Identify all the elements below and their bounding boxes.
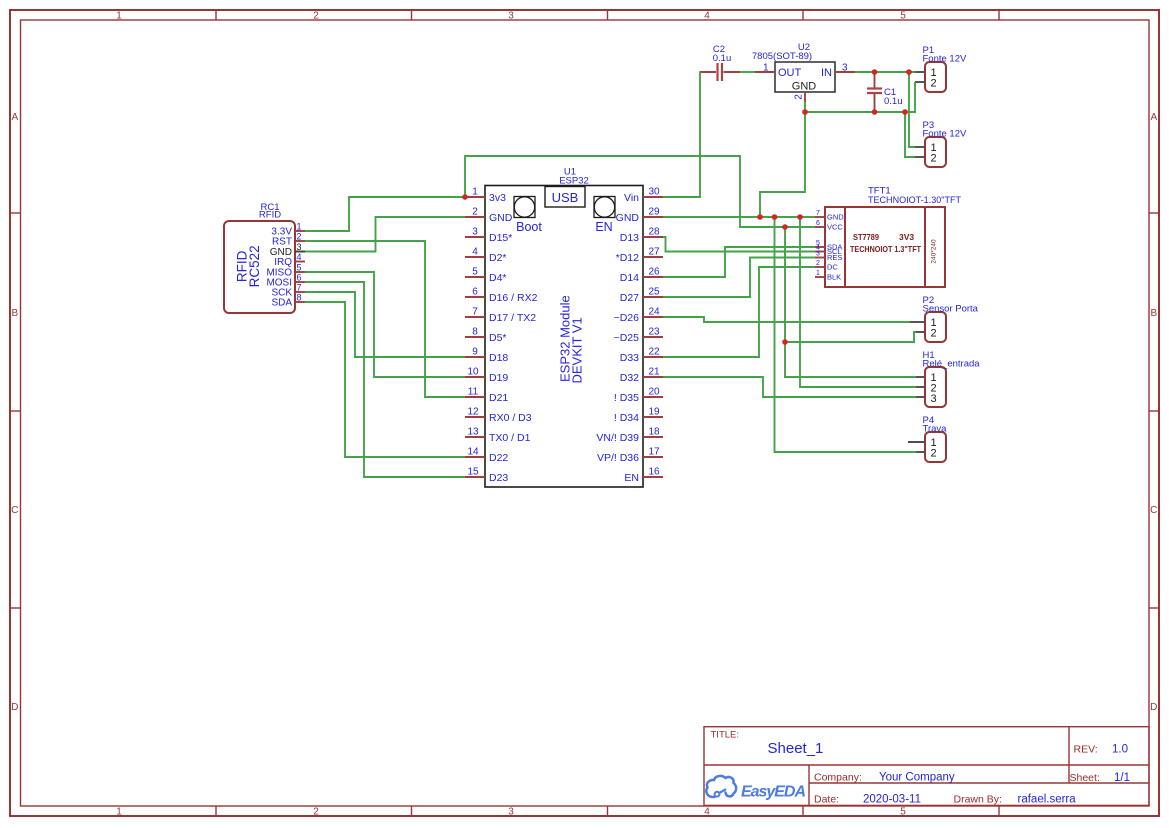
svg-text:13: 13 [467, 427, 479, 438]
svg-text:18: 18 [648, 427, 660, 438]
EasyEDA logo [706, 776, 806, 801]
svg-text:3: 3 [508, 807, 514, 818]
P1 pin 2 stub [915, 81, 925, 83]
wire GND branch to H1 pin2 [800, 217, 916, 387]
svg-text:! D34: ! D34 [614, 412, 639, 424]
TFT1 inner text 3V3 [899, 232, 914, 242]
title block date value 2020-03-11 [863, 794, 921, 806]
P1 reference label [923, 45, 935, 56]
border column numbers bottom [116, 807, 906, 818]
svg-text:IRQ: IRQ [274, 257, 292, 268]
svg-text:D17 / TX2: D17 / TX2 [489, 312, 536, 324]
P3 value label Fonte 12V [923, 129, 967, 140]
H1 reference label [923, 350, 935, 361]
TFT1 inner text TECHNOIOT 1.3"TFT [850, 244, 922, 254]
svg-text:Date:: Date: [814, 794, 839, 806]
U1 right pin names [596, 192, 639, 484]
junction dot C1 bottom on GND net [872, 109, 878, 115]
svg-text:Boot: Boot [516, 220, 542, 234]
svg-text:IN: IN [821, 67, 832, 79]
wire U1 GND to TFT1 GND [663, 216, 815, 218]
EN button label [595, 220, 612, 234]
wire RC1 SDA to U1 D22 [305, 302, 465, 457]
RC1 value label RFID [259, 210, 281, 221]
title block REV label [1074, 744, 1098, 756]
U1 right pin stubs 30-16 [643, 197, 663, 477]
RC1 pin names [266, 227, 292, 309]
svg-text:*D12: *D12 [616, 252, 640, 264]
svg-text:Fonte 12V: Fonte 12V [923, 129, 967, 140]
connector P1 body [925, 62, 946, 92]
U1 reference label [564, 167, 576, 178]
svg-text:D27: D27 [620, 292, 639, 304]
svg-text:RST: RST [272, 237, 292, 248]
U1 left pin numbers 1-15 [467, 187, 479, 478]
svg-text:D14: D14 [620, 272, 639, 284]
wire GND branch to P3 pin2 [905, 112, 915, 157]
svg-text:VN/! D39: VN/! D39 [596, 432, 639, 444]
RFID module RC1 body [224, 221, 295, 313]
svg-text:RES: RES [827, 253, 842, 262]
svg-text:C: C [11, 505, 18, 516]
svg-text:2: 2 [297, 232, 302, 242]
wire GND bus to P1 pin2 [805, 82, 915, 112]
svg-text:~D26: ~D26 [614, 312, 640, 324]
svg-text:2: 2 [931, 153, 937, 165]
svg-text:TX0 / D1: TX0 / D1 [489, 432, 531, 444]
svg-text:29: 29 [648, 207, 660, 218]
svg-text:5: 5 [900, 807, 906, 818]
wire U1 Vin to C2 [663, 72, 700, 197]
svg-text:5: 5 [297, 263, 302, 273]
connector H1 body [925, 367, 946, 407]
U1 value label ESP32 [559, 176, 589, 187]
border ruler ticks bottom [216, 806, 999, 816]
title block Sheet label [1070, 772, 1100, 784]
svg-text:! D35: ! D35 [614, 392, 639, 404]
svg-text:EN: EN [624, 472, 639, 484]
svg-text:4: 4 [704, 11, 710, 22]
capacitor C1 [867, 72, 882, 112]
svg-text:C: C [1150, 505, 1157, 516]
svg-text:D19: D19 [489, 372, 508, 384]
svg-text:7: 7 [297, 283, 302, 293]
svg-text:17: 17 [648, 447, 660, 458]
title block sheet value 1/1 [1114, 772, 1130, 784]
svg-text:Trava: Trava [923, 424, 948, 435]
junction dot U2 GND pin [802, 109, 808, 115]
svg-text:D5*: D5* [489, 332, 507, 344]
svg-text:D: D [1150, 702, 1157, 713]
svg-text:DEVKIT V1: DEVKIT V1 [570, 317, 585, 383]
wire U1 D32 to H1 pin3 [663, 377, 916, 397]
H1 value label Rele_entrada [923, 359, 981, 370]
svg-text:16: 16 [648, 467, 660, 478]
U2 pin 2 GND stub [804, 92, 806, 102]
svg-text:Sheet:: Sheet: [1070, 772, 1100, 784]
P4 pin numbers [931, 437, 937, 460]
wire RC1 RST to U1 D21 [305, 241, 465, 397]
svg-text:D15*: D15* [489, 232, 512, 244]
svg-text:D23: D23 [489, 472, 508, 484]
svg-text:0.1u: 0.1u [713, 53, 732, 64]
svg-text:26: 26 [648, 267, 660, 278]
svg-text:2: 2 [816, 260, 820, 267]
RC1 reference label [260, 202, 279, 213]
U2 reference label [798, 42, 810, 53]
svg-text:Vin: Vin [624, 192, 639, 204]
wire U1 D14 to TFT1 SDA [663, 247, 815, 277]
EN button on U1 [594, 197, 615, 218]
svg-text:2020-03-11: 2020-03-11 [863, 794, 921, 806]
USB connector box on U1 [545, 187, 585, 208]
junction dot GND rail riser [757, 214, 763, 220]
wire RC1 MOSI to U1 D23 [305, 282, 465, 477]
connector P4 body [925, 432, 946, 462]
TFT1 inner text ST7789 [853, 232, 879, 242]
H1 pin 1 stub [916, 376, 925, 378]
junction dot U1 pin1 3v3 [462, 194, 468, 200]
svg-text:SDA: SDA [271, 298, 292, 309]
U2 value label 7805(SOT-89) [752, 51, 812, 62]
capacitor C2 [700, 63, 741, 81]
svg-text:2: 2 [472, 207, 478, 218]
svg-text:4: 4 [297, 252, 302, 262]
border row letters right [1150, 112, 1157, 713]
svg-text:28: 28 [648, 227, 660, 238]
P2 pin numbers [931, 317, 937, 340]
U2 GND pin name [792, 81, 817, 93]
svg-text:Sensor Porta: Sensor Porta [923, 304, 979, 315]
border ruler ticks top [216, 10, 999, 20]
svg-text:1.0: 1.0 [1112, 744, 1128, 756]
P1 pin 1 stub [915, 71, 925, 73]
svg-text:D18: D18 [489, 352, 508, 364]
title block outline [704, 727, 1149, 806]
svg-text:D2*: D2* [489, 252, 507, 264]
svg-text:REV:: REV: [1074, 744, 1098, 756]
svg-text:9: 9 [472, 347, 478, 358]
RC1 pin numbers 1-8 [297, 222, 302, 303]
svg-text:0.1u: 0.1u [884, 96, 903, 107]
Boot button label [516, 220, 542, 234]
U1 rotated name ESP32 Module [558, 295, 573, 382]
svg-text:D4*: D4* [489, 272, 507, 284]
svg-text:1/1: 1/1 [1114, 772, 1130, 784]
border row letters left [11, 112, 18, 713]
svg-text:3: 3 [472, 227, 478, 238]
svg-text:rafael.serra: rafael.serra [1018, 794, 1077, 806]
svg-text:D16 / RX2: D16 / RX2 [489, 292, 538, 304]
svg-text:21: 21 [648, 367, 660, 378]
junction dot GND rail to P4 [772, 214, 778, 220]
svg-text:22: 22 [648, 347, 660, 358]
svg-text:DC: DC [827, 263, 838, 272]
P2 pin 2 stub [916, 331, 925, 333]
junction dot P3 pin2 branch on GND net [902, 109, 908, 115]
U2 pin 1 number [763, 63, 769, 74]
wire U2 IN to P1 pin1 [855, 71, 915, 73]
svg-text:25: 25 [648, 287, 660, 298]
svg-text:RFID: RFID [235, 250, 250, 282]
RC1 rotated name RC522 [247, 245, 262, 287]
svg-text:USB: USB [552, 190, 579, 205]
junction dot GND rail to H1 [797, 214, 803, 220]
svg-text:15: 15 [467, 467, 479, 478]
border ruler ticks right [1149, 213, 1159, 608]
svg-text:2: 2 [313, 11, 319, 22]
connector P3 body [925, 137, 946, 167]
P1 value label Fonte 12V [923, 54, 967, 65]
svg-text:1: 1 [297, 222, 302, 232]
svg-text:6: 6 [816, 220, 820, 227]
svg-text:3: 3 [297, 242, 302, 252]
svg-text:14: 14 [467, 447, 479, 458]
H1 pin numbers [931, 372, 937, 405]
svg-text:4: 4 [472, 247, 478, 258]
junction dot P3 branch on IN net [906, 69, 912, 75]
U2 OUT pin name [778, 67, 802, 79]
title block company value Your Company [879, 772, 955, 784]
svg-text:1: 1 [116, 807, 122, 818]
svg-text:GND: GND [616, 212, 640, 224]
wire U1 D33 to TFT1 DC [663, 267, 815, 357]
svg-text:GND: GND [827, 213, 844, 222]
junction dot VCC rail branch [782, 224, 788, 230]
svg-text:EN: EN [595, 220, 612, 234]
border ruler ticks left [10, 213, 21, 608]
title block Drawn By label [954, 794, 1002, 806]
svg-text:3: 3 [842, 63, 848, 74]
svg-text:1: 1 [472, 187, 478, 198]
svg-text:TECHNOIOT 1.3"TFT: TECHNOIOT 1.3"TFT [850, 244, 922, 254]
svg-text:Relé_entrada: Relé_entrada [923, 359, 981, 370]
wire U2 GND pin down [804, 102, 806, 112]
svg-text:2: 2 [794, 94, 805, 100]
wire C2 to U2 OUT [740, 71, 755, 73]
svg-text:19: 19 [648, 407, 660, 418]
wire U1 D27 to TFT1 RES [663, 258, 815, 298]
svg-text:12: 12 [467, 407, 479, 418]
svg-text:OUT: OUT [778, 67, 802, 79]
svg-text:1: 1 [816, 270, 820, 277]
svg-text:6: 6 [472, 287, 478, 298]
svg-text:2: 2 [931, 328, 937, 340]
P3 reference label [923, 120, 935, 131]
svg-text:7: 7 [472, 307, 478, 318]
svg-text:2: 2 [313, 807, 319, 818]
svg-text:8: 8 [472, 327, 478, 338]
wire RC1 GND to U1 GND [305, 217, 465, 252]
svg-text:23: 23 [648, 327, 660, 338]
U1 left pin names [489, 192, 538, 484]
svg-text:Drawn By:: Drawn By: [954, 794, 1002, 806]
svg-text:A: A [1150, 112, 1157, 123]
P3 pin 2 stub [915, 156, 925, 158]
P1 pin numbers [931, 67, 937, 90]
wire RC1 SCK to U1 D18 [305, 292, 465, 357]
TFT1 reference label [868, 186, 891, 197]
svg-text:B: B [1150, 308, 1157, 319]
svg-text:Fonte 12V: Fonte 12V [923, 54, 967, 65]
P2 value label Sensor Porta [923, 304, 979, 315]
svg-text:7: 7 [816, 210, 820, 217]
svg-text:4: 4 [704, 807, 710, 818]
svg-text:5: 5 [472, 267, 478, 278]
title block rev value 1.0 [1112, 744, 1128, 756]
P2 reference label [923, 295, 935, 306]
H1 pin 2 stub [916, 386, 925, 388]
TFT1 pin stubs [815, 217, 825, 277]
connector P2 body [925, 312, 946, 342]
svg-text:D22: D22 [489, 452, 508, 464]
U2 IN pin name [821, 67, 832, 79]
svg-text:GND: GND [792, 81, 817, 93]
title block drawn by value rafael.serra [1018, 794, 1077, 806]
svg-text:1: 1 [763, 63, 769, 74]
wire RC1 MISO to U1 D19 [305, 272, 465, 377]
svg-text:D32: D32 [620, 372, 639, 384]
C2 reference label [713, 44, 725, 55]
TFT1 pin numbers [816, 210, 820, 277]
svg-text:2: 2 [931, 448, 937, 460]
border column numbers top [116, 11, 906, 22]
svg-text:Sheet_1: Sheet_1 [768, 740, 824, 757]
svg-text:ESP32: ESP32 [559, 176, 589, 187]
U1 right pin numbers 30-16 [648, 187, 660, 478]
wire RC1 3.3V to U1 3v3 [305, 197, 464, 231]
P2 pin 1 stub [910, 321, 925, 323]
svg-text:3: 3 [508, 11, 514, 22]
svg-text:ST7789: ST7789 [853, 232, 879, 242]
H1 pin 3 stub [916, 396, 925, 398]
wire 3v3 riser from U1 pin1 junction [465, 156, 815, 227]
svg-text:VP/! D36: VP/! D36 [597, 452, 639, 464]
P3 pin numbers [931, 142, 937, 165]
svg-text:Your Company: Your Company [879, 772, 955, 784]
U2 pin 3 IN stub [835, 71, 855, 73]
U1 rotated name DEVKIT V1 [570, 317, 585, 383]
svg-text:B: B [11, 308, 18, 319]
svg-text:VCC: VCC [827, 223, 843, 232]
svg-text:10: 10 [467, 367, 479, 378]
svg-text:11: 11 [468, 387, 479, 398]
svg-text:GND: GND [489, 212, 513, 224]
P3 pin 1 stub [915, 146, 925, 148]
C2 value label 0.1u [713, 53, 732, 64]
svg-text:5: 5 [900, 11, 906, 22]
junction dot C1 top on IN net [872, 69, 878, 75]
P4 pin 2 stub [916, 451, 925, 453]
ESP32 module U1 body [485, 186, 643, 488]
svg-text:TECHNOIOT-1.30"TFT: TECHNOIOT-1.30"TFT [868, 195, 961, 206]
svg-text:8: 8 [297, 293, 302, 303]
svg-text:1: 1 [116, 11, 122, 22]
voltage regulator U2 body [775, 62, 835, 92]
svg-text:BLK: BLK [827, 273, 841, 282]
svg-text:3: 3 [816, 251, 820, 258]
U2 pin 3 number [842, 63, 848, 74]
svg-text:D: D [11, 702, 18, 713]
title block sheet name Sheet_1 [768, 740, 824, 757]
svg-text:3: 3 [931, 393, 937, 405]
svg-text:20: 20 [648, 387, 660, 398]
wire U2 GND down to TFT GND rail [760, 112, 805, 217]
C1 value label 0.1u [884, 96, 903, 107]
svg-text:D13: D13 [620, 232, 639, 244]
svg-text:7805(SOT-89): 7805(SOT-89) [752, 51, 812, 62]
wire IN net branch to P3 pin1 [909, 72, 915, 147]
svg-text:240*240: 240*240 [931, 239, 938, 264]
svg-text:3v3: 3v3 [489, 192, 506, 204]
TFT1 value label TECHNOIOT-1.30"TFT [868, 195, 961, 206]
title block TITLE label [711, 730, 740, 741]
svg-text:6: 6 [297, 273, 302, 283]
svg-text:EasyEDA: EasyEDA [741, 784, 806, 801]
U1 left pin stubs 1-15 [465, 197, 485, 477]
wire 3v3 branch to P2 pin2 [785, 227, 916, 342]
svg-text:3V3: 3V3 [899, 232, 914, 242]
svg-text:2: 2 [931, 78, 937, 90]
wire 3v3 branch continues to H1 pin1 [785, 342, 916, 377]
Boot button on U1 [514, 197, 535, 218]
U2 pin 2 number rotated [794, 94, 805, 100]
svg-text:D33: D33 [620, 352, 639, 364]
svg-text:~D25: ~D25 [614, 332, 640, 344]
wire GND branch to P4 pin2 [775, 217, 917, 452]
TFT1 rotated text 240*240 [931, 239, 938, 264]
title block Date label [814, 794, 839, 806]
RC1 rotated name RFID [235, 250, 250, 282]
U2 pin 1 OUT stub [755, 71, 775, 73]
svg-text:RFID: RFID [259, 210, 281, 221]
svg-text:24: 24 [648, 307, 660, 318]
svg-text:Company:: Company: [814, 772, 862, 784]
RC1 pin stubs 1-8 [295, 231, 305, 302]
wire U1 D26 to P2 pin1 [663, 317, 910, 322]
svg-text:27: 27 [648, 247, 660, 258]
wire U1 D13 to TFT1 SCL [663, 237, 815, 252]
title block Company label [814, 772, 862, 784]
P4 value label Trava [923, 424, 948, 435]
TFT display TFT1 body [825, 207, 945, 287]
svg-text:RX0 / D3: RX0 / D3 [489, 412, 532, 424]
svg-text:TITLE:: TITLE: [711, 730, 740, 741]
svg-text:A: A [11, 112, 18, 123]
svg-text:30: 30 [648, 187, 660, 198]
C1 reference label [884, 87, 896, 98]
TFT1 pin names [827, 213, 844, 282]
junction dot 3v3 branch at P2 pin2 [782, 339, 788, 345]
svg-text:D21: D21 [489, 392, 508, 404]
P4 reference label [923, 415, 935, 426]
P4 pin 1 stub [908, 441, 925, 443]
